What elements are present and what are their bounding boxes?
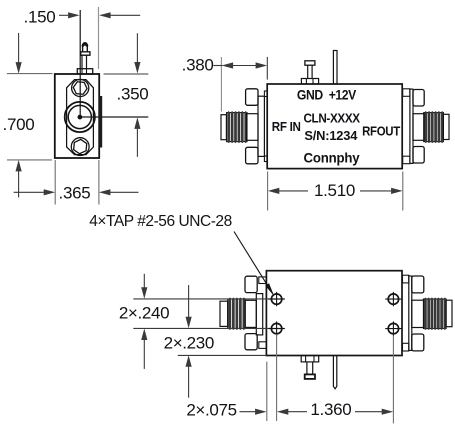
svg-text:.150: .150 [24,8,56,27]
svg-text:2×.240: 2×.240 [119,304,169,323]
svg-text:.350: .350 [117,85,149,104]
svg-text:1.360: 1.360 [310,400,351,419]
svg-text:RFOUT: RFOUT [362,124,401,139]
svg-text:.380: .380 [182,56,214,75]
svg-text:CLN-XXXX: CLN-XXXX [303,111,360,126]
svg-text:.365: .365 [59,183,91,202]
svg-text:2×.230: 2×.230 [164,334,214,353]
svg-text:4×TAP #2-56 UNC-28: 4×TAP #2-56 UNC-28 [89,213,232,230]
svg-text:Connphy: Connphy [304,150,361,165]
svg-text:S/N:1234: S/N:1234 [304,128,358,143]
svg-text:.700: .700 [3,115,35,134]
svg-text:RF IN: RF IN [272,120,301,134]
svg-text:1.510: 1.510 [314,181,355,200]
svg-text:2×.075: 2×.075 [186,400,236,419]
svg-text:GND +12V: GND +12V [297,87,357,103]
